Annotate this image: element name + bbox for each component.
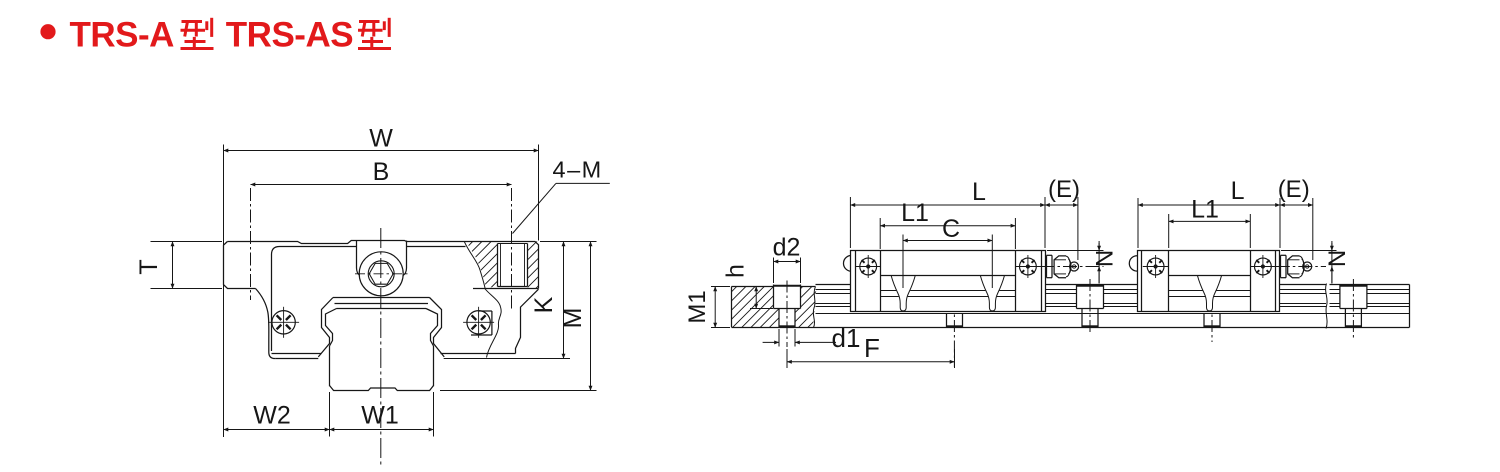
rail stem sides (W1) <box>329 346 331 386</box>
dim h <box>750 308 773 310</box>
left view centerline <box>380 228 382 468</box>
block2 funnel hole <box>1198 276 1222 311</box>
thread hole 4-M <box>497 244 499 287</box>
counterbore d2/d1 in section <box>773 285 775 309</box>
block1 funnel hole 1 <box>891 276 915 311</box>
svg-text:4–M: 4–M <box>553 157 603 183</box>
hatch zone right of 4-M hole <box>524 241 542 290</box>
svg-text:N: N <box>1092 250 1119 267</box>
block1 screw left <box>860 258 877 275</box>
svg-text:h: h <box>722 264 750 278</box>
section hole centerline <box>786 281 788 348</box>
block2 screw left <box>1147 258 1164 275</box>
rail hole centerlines <box>953 279 955 367</box>
block2 outline <box>1138 251 1280 312</box>
block1 band line <box>881 275 1016 277</box>
block1 funnel hole 2 <box>980 276 1004 311</box>
svg-text:B: B <box>373 158 390 186</box>
svg-text:M: M <box>559 308 587 329</box>
svg-text:d1: d1 <box>832 323 861 353</box>
rail right end <box>1409 285 1411 328</box>
rail lower line <box>816 313 1410 315</box>
dim M1 <box>711 286 730 288</box>
rail hole at rail end <box>1339 285 1341 309</box>
dim M <box>540 241 597 243</box>
section break line <box>813 287 815 328</box>
svg-text:W1: W1 <box>361 402 399 430</box>
rail section outline <box>732 286 774 288</box>
block2 inner lines <box>1169 290 1204 292</box>
grease port circles <box>359 252 403 296</box>
block1 inner lines <box>881 290 897 292</box>
hatch section left part <box>726 284 803 330</box>
rail top edge <box>816 284 851 286</box>
block body outline <box>272 247 357 352</box>
dim L block2 <box>1137 198 1139 248</box>
block1 seal lip arc <box>843 256 850 272</box>
dim E block1 <box>1077 197 1079 260</box>
svg-text:L1: L1 <box>1191 196 1219 224</box>
dim F <box>786 349 788 368</box>
flange top plate <box>227 241 538 289</box>
block2 seal lip arc <box>1129 256 1137 271</box>
dim L1 block2 <box>1168 214 1170 248</box>
nipple2 centerline <box>1276 266 1326 268</box>
dim N block1 <box>1047 250 1104 252</box>
svg-text:M1: M1 <box>684 290 711 323</box>
block2 seal/cap verticals <box>1141 251 1143 312</box>
dim d2 <box>773 258 775 284</box>
end cap screw left <box>272 311 295 334</box>
dim N block2 <box>1281 250 1337 252</box>
svg-text:L: L <box>972 178 986 206</box>
dim W <box>223 145 225 438</box>
dim L1 block1 <box>879 218 881 249</box>
svg-text:TRS-AS: TRS-AS <box>226 16 353 55</box>
dim T <box>151 241 223 243</box>
rail cross-section (inner contour) <box>335 303 429 305</box>
svg-text:W: W <box>369 125 393 153</box>
svg-text:d2: d2 <box>773 234 801 262</box>
svg-text:C: C <box>942 215 960 243</box>
cutaway break line <box>464 242 501 358</box>
dim W1 <box>330 429 434 431</box>
svg-text:T: T <box>135 259 163 274</box>
rail hole under block1 <box>946 314 948 328</box>
block2 band line <box>1169 275 1251 277</box>
title bullet <box>40 24 55 39</box>
block1 outline <box>851 251 1046 312</box>
rail break line <box>1326 284 1328 329</box>
svg-text:L: L <box>1231 177 1245 205</box>
svg-text:TRS-A: TRS-A <box>70 16 175 55</box>
rail hole between blocks <box>1076 285 1078 309</box>
dim B <box>250 188 252 300</box>
hatch section right part <box>792 284 820 330</box>
dim W2 <box>224 429 330 431</box>
screw boss plate right <box>479 310 492 312</box>
block1 seal/cap verticals <box>855 251 857 312</box>
grease nipple block1 <box>1047 254 1053 256</box>
end cap screw right <box>467 311 490 334</box>
svg-text:(E): (E) <box>1048 176 1080 203</box>
dim K <box>563 242 565 359</box>
grease nipple block2 <box>1281 254 1287 256</box>
block2 screw right <box>1255 258 1272 275</box>
svg-text:L1: L1 <box>901 199 929 227</box>
svg-text:F: F <box>864 333 880 363</box>
dim E block2 <box>1312 198 1314 260</box>
hatch zone left of 4-M hole <box>460 241 500 290</box>
rail bottom edge <box>330 386 434 391</box>
svg-text:(E): (E) <box>1278 176 1310 203</box>
svg-text:K: K <box>530 296 558 313</box>
svg-text:N: N <box>1324 250 1351 267</box>
svg-text:W2: W2 <box>253 402 291 430</box>
dim C block1 <box>902 235 904 289</box>
rail bottom edge <box>732 327 1410 329</box>
rail groove lines <box>816 289 851 291</box>
rail cross-section cavity (outer contour) <box>333 297 430 299</box>
dim L block1 <box>849 197 851 248</box>
grease boss <box>356 241 358 269</box>
dim d1 <box>778 329 780 347</box>
rail hole under block2 <box>1203 314 1205 328</box>
leader 4-M <box>513 183 556 233</box>
nipple1 centerline <box>1041 266 1104 268</box>
block1 screw right <box>1020 258 1037 275</box>
